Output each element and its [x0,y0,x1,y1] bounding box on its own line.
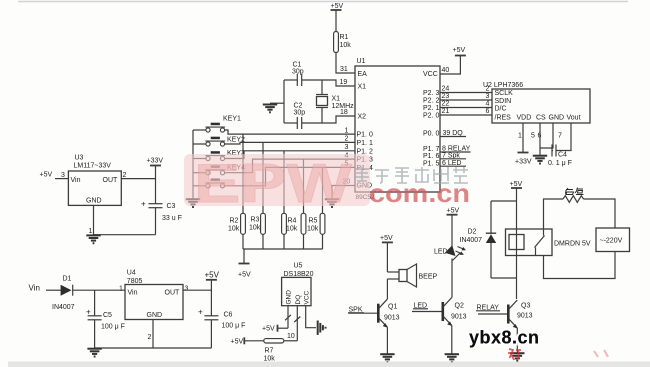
svg-text:1: 1 [89,228,93,235]
svg-text:P0. 0: P0. 0 [423,130,439,137]
wire U2 Vout pin7 to C4 [556,123,571,151]
relay K1 DMRDN 5V [506,229,591,256]
svg-text:R2: R2 [230,218,239,225]
power +5V to R7 [231,337,264,345]
svg-text:BEEP: BEEP [419,274,438,281]
svg-text:+: + [141,200,146,209]
svg-text:U1: U1 [357,58,366,65]
svg-text:22: 22 [442,101,450,108]
U2 pin labels [495,90,581,122]
watermark ybx8.cn logo [469,328,540,348]
wire U5 VCC pin to side ground [306,306,316,328]
wire crystal top (C1 to X1 pin 19) [284,80,355,86]
svg-text:Vin: Vin [128,290,138,297]
svg-text:9013: 9013 [451,314,467,321]
wire bottom bus [95,347,212,349]
switch KEY2 [205,137,245,147]
svg-text:33 u F: 33 u F [162,215,182,222]
wire GND pin 20 [332,186,355,199]
svg-text:DMRDN 5V: DMRDN 5V [554,241,591,248]
power +33V (U3 out) [147,158,164,166]
crystal X1 12MHz [316,80,354,123]
svg-text:C5: C5 [103,312,112,319]
ground key matrix [186,199,200,207]
svg-text:+33V: +33V [147,158,164,165]
wire +5V to R1 [335,10,337,32]
svg-text:VCC: VCC [423,71,438,78]
svg-text:10k: 10k [286,226,298,233]
resistor R3b unlabeled 10k [282,151,287,249]
ground crystal [263,105,277,113]
svg-text:DQ: DQ [295,295,302,305]
wire 220V to bottom rail [544,252,616,279]
svg-text:4: 4 [486,101,490,108]
wire KEY3 to P1.2 [225,151,355,159]
wire U2 CS pin5 down [539,123,541,155]
svg-text:D2: D2 [468,229,477,236]
watermark pink block [184,154,370,206]
svg-text:18: 18 [340,109,348,116]
svg-text:100 μ F: 100 μ F [222,323,246,330]
wire R1 to EA pin 31 [336,53,355,74]
wire P2.0 to U2 /RES [440,114,492,116]
svg-text:EPW: EPW [194,152,352,214]
svg-text:Q3: Q3 [521,303,530,310]
svg-text:30p: 30p [294,110,306,117]
svg-text:KEY1: KEY1 [223,116,241,123]
wire R7 to DQ node 10 [284,333,298,341]
capacitor C2 30p [294,103,306,130]
resistor R1 10k [334,32,352,53]
wire U4 OUT to +5V node [183,280,211,290]
wire load loop top [544,199,564,229]
wire +5V to speaker and to Q1 collector [387,242,399,299]
power +5V rail top (R1) [331,3,344,10]
svg-text:+5V: +5V [380,235,393,242]
svg-text:OUT: OUT [165,290,181,297]
svg-text:+33V: +33V [515,159,532,166]
svg-text:GND: GND [549,115,565,122]
transistor Q1 9013 [378,299,399,328]
wire KEY5 to P1.4 [225,167,355,185]
net label RELAY (base Q3) [476,305,500,312]
svg-text:X2: X2 [358,114,367,121]
wire KEY1 to P1.0 [225,130,355,134]
svg-text:R5: R5 [309,218,318,225]
svg-text:10k: 10k [340,42,352,49]
op-amp U1 89C52 MCU box [355,58,440,201]
svg-text:+: + [198,308,203,317]
svg-text:1: 1 [119,286,123,293]
power +5V to U5 [262,325,288,333]
ground U5 sideways [318,321,326,335]
svg-text:0. 1 μ F: 0. 1 μ F [548,160,572,167]
svg-text:GND: GND [86,198,102,205]
svg-text:CS: CS [536,115,546,122]
svg-text:/RES: /RES [495,115,512,122]
svg-text:10k: 10k [264,356,276,363]
svg-text:R3: R3 [251,217,260,224]
svg-text:23: 23 [442,93,450,100]
svg-text:2: 2 [486,86,490,93]
svg-text:10k: 10k [228,226,240,233]
wire U5 DQ pin down [294,306,300,341]
svg-text:40: 40 [442,67,450,74]
ground U2 CS [533,156,547,164]
capacitor C5 100uF [86,290,125,348]
svg-text:U5: U5 [294,263,303,270]
svg-text:R4: R4 [288,218,297,225]
svg-text:2: 2 [123,172,127,179]
wire +5V down to LED [451,215,453,247]
capacitor C6 100uF [198,290,245,348]
switch KEY4 [205,165,245,175]
U1 pin numbers right [442,67,450,115]
svg-text:C2: C2 [294,103,303,110]
wire U2 GND pin6 to CS node [540,123,553,148]
svg-text:10k: 10k [249,225,261,232]
svg-text:9013: 9013 [517,313,533,320]
svg-text:12MHz: 12MHz [332,103,355,110]
wire LED label to Q2 base [412,311,442,313]
svg-text:D1: D1 [63,276,72,283]
resistor R5 10k [307,167,325,249]
resistor R2 10k [228,134,245,249]
bottom edge strip [8,362,650,367]
wire VCC pin40 to +5V [440,56,460,75]
svg-text:X1: X1 [332,96,341,103]
resistor load (zigzag) [563,196,584,203]
wire U2 VDD pin1 down [522,123,524,153]
wire rail to ground stub [270,102,284,104]
svg-text:+5V: +5V [205,271,220,280]
wire P2.1 to U2 D/C [440,107,492,109]
svg-text:R7: R7 [265,348,274,355]
svg-text:7: 7 [558,133,562,140]
svg-text:+5V: +5V [510,181,523,188]
svg-text:P2. 1: P2. 1 [423,105,439,112]
power +5V (beep branch) [380,235,393,242]
ground U3 [86,235,100,243]
wire load to 220V box [584,199,616,228]
U1 pin numbers left [340,66,351,186]
wire Q2 emitter to ground [451,326,453,354]
wire D2 top rail [491,200,517,202]
svg-text:GND: GND [286,290,293,305]
svg-text:Q1: Q1 [388,304,397,311]
U2 pin numbers [486,86,563,140]
resistor R7 10k [264,339,284,363]
wire D2 bottom rail [491,277,517,279]
svg-text:2: 2 [148,334,152,341]
wire key left stubs and rail [193,130,206,199]
capacitor C4 0.1uF [548,145,572,168]
wire C4 left plate to GND node [552,150,553,152]
ground U4 [87,349,101,357]
svg-text:+5V: +5V [262,326,275,333]
svg-text:Vout: Vout [567,115,581,122]
power +5V (LED branch) [447,208,460,215]
wire U4 GND pin2 down [152,320,154,349]
svg-text:P2. 0: P2. 0 [423,113,439,120]
svg-text:EA: EA [358,71,368,78]
wire Q1 emitter to ground [386,327,388,353]
capacitor C3 33uF [141,179,182,235]
transistor Q2 9013 [443,298,467,327]
net label 7 Spk [440,153,466,160]
svg-text:3: 3 [185,286,189,293]
svg-text:10: 10 [287,333,295,340]
svg-text:9013: 9013 [384,315,400,322]
resistor R4 10k [286,159,306,249]
regulator U3 LM117-33V box [68,155,121,206]
svg-text:P1. 5: P1. 5 [423,160,439,167]
power +5V (U4 out) [205,271,220,280]
wire U3 OUT pin 2 to +33V node [121,166,155,180]
wire +5V to U3 pin 3 [40,172,69,180]
svg-text:C1: C1 [293,62,302,69]
svg-text:100 μ F: 100 μ F [101,324,125,331]
svg-text:+5V: +5V [453,47,466,54]
wire crystal bottom (C2 to X2 pin 18) [284,116,355,123]
svg-text:3: 3 [345,144,349,151]
source ~220V box [596,228,630,252]
svg-text:~-220V: ~-220V [600,238,623,245]
power +5V (VCC) [453,47,466,56]
watermark red glyph [508,349,521,360]
svg-text:IN4007: IN4007 [460,237,483,244]
power +33V (U2 VDD) [515,153,532,166]
svg-text:P1. 6: P1. 6 [423,153,439,160]
svg-text:VDD: VDD [517,115,532,122]
wire KEY4 to P1.3 [225,159,355,173]
svg-text:C6: C6 [224,312,233,319]
svg-text:OUT: OUT [103,177,119,184]
switch KEY3 [205,150,245,161]
svg-text:6: 6 [486,108,490,115]
svg-text:P1. 1: P1. 1 [357,140,373,147]
watermark com.cn [369,178,470,208]
wire LED to Q2 collector [451,259,453,298]
wire KEY2 to P1.1 [225,142,355,144]
svg-text:+5V: +5V [40,172,53,179]
svg-text:P2. 2: P2. 2 [423,98,439,105]
svg-text:ybx8.cn: ybx8.cn [469,328,540,348]
svg-text:SCLK: SCLK [495,90,514,97]
svg-text:P2. 3: P2. 3 [423,90,439,97]
wire Q3 emitter to ground [516,328,518,352]
svg-text:3: 3 [61,172,65,179]
svg-text:D/C: D/C [495,106,507,113]
svg-text:+5V: +5V [231,339,244,346]
ground Q3 [510,353,524,361]
regulator U4 7805 box [119,270,189,342]
svg-text:+: + [86,308,91,317]
svg-text:1: 1 [518,133,522,140]
svg-text:C3: C3 [167,203,176,210]
svg-text:21: 21 [442,108,450,115]
svg-text:31: 31 [340,66,348,73]
svg-text:U4: U4 [127,270,136,277]
svg-text:P1. 0: P1. 0 [357,132,373,139]
svg-text:VCC: VCC [303,290,310,304]
wire SPK to Q1 base [349,312,378,314]
power +5V pullup bus [238,264,251,279]
net label 39 DQ [440,130,466,137]
svg-text:C4: C4 [558,152,567,159]
svg-text:+5V: +5V [447,208,460,215]
ground Q2 [445,354,459,362]
wire U5 GND pin down [285,306,291,329]
wire relay coil vertical [516,188,518,299]
diode D1 IN4007 [52,276,75,311]
svg-text:10k: 10k [307,226,319,233]
power +5V (relay branch) [510,181,523,188]
LED indicator diode [434,245,466,260]
svg-text:SDIN: SDIN [495,98,512,105]
svg-text:Vin: Vin [29,284,40,293]
svg-text:LM117~33V: LM117~33V [74,163,112,170]
svg-text:R1: R1 [340,34,349,41]
watermark CJK characters [355,167,468,183]
svg-text:2: 2 [345,136,349,143]
svg-text:Vin: Vin [71,177,81,184]
svg-text:1: 1 [345,127,349,134]
svg-text:com.cn: com.cn [369,178,470,208]
wire P2.3 to U2 SCLK [440,92,492,94]
net label SPK [348,307,364,314]
svg-text:24: 24 [442,86,450,93]
wire P2.2 to U2 SDIN [440,99,492,101]
svg-text:7805: 7805 [127,278,143,285]
svg-text:Q2: Q2 [455,303,464,310]
svg-text:+5V: +5V [331,3,344,10]
net label 6 LED [440,160,466,167]
wire crystal left rail [283,80,285,123]
transistor Q3 9013 [508,300,532,329]
speaker BEEP [399,264,438,287]
diode D2 IN4007 [486,201,496,278]
switch KEY5 [205,179,225,188]
node Vin input [29,284,61,293]
net label 8 RELAY [440,146,471,153]
ground Q1 [380,354,394,362]
wire RELAY to Q3 base [478,313,507,315]
svg-text:DS18B20: DS18B20 [284,271,314,278]
U1 right pin labels [423,71,439,167]
diode D2 IN4007 labels [460,229,483,245]
svg-text:IN4007: IN4007 [52,304,75,311]
svg-text:3: 3 [486,93,490,100]
wire D1 to U4 pin1 [73,289,125,291]
LCD U2 LPH7366 box [483,82,590,123]
net label LED (base Q2) [413,303,428,310]
top border line [18,1,628,3]
watermark EPW letters [194,152,352,214]
svg-text:X1: X1 [358,84,367,91]
svg-text:19: 19 [340,79,348,86]
svg-text:5: 5 [531,133,535,140]
capacitor C1 30p [292,62,304,87]
svg-text:+5V: +5V [238,272,251,279]
svg-text:U3: U3 [75,155,84,162]
wire pullup bus [243,249,323,264]
label load (CJK) [566,188,584,195]
watermark pink marks bottom right [594,350,608,357]
U1 left pin labels [357,71,373,190]
ground U1 GND [325,199,339,207]
svg-text:GND: GND [147,312,163,319]
svg-text:P1. 7: P1. 7 [423,146,439,153]
wire U3 GND pin1 to ground [89,205,156,235]
resistor R3 10k [249,142,265,249]
sensor U5 DS18B20 box [282,263,314,306]
switch KEY1 [205,116,241,133]
